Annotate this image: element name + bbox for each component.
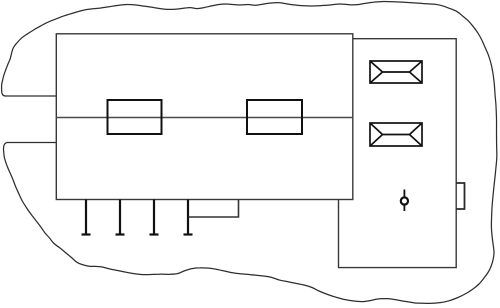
right edge box bbox=[456, 183, 464, 209]
tick T1 bbox=[82, 200, 91, 235]
window symbol W1 bbox=[370, 61, 422, 83]
right room outline bbox=[339, 39, 457, 268]
knob symbol bbox=[401, 190, 408, 212]
tick T4 bbox=[184, 200, 193, 235]
bottom notch bbox=[189, 200, 239, 217]
box B1 bbox=[108, 100, 162, 134]
window symbol W2 bbox=[370, 123, 422, 146]
tick T2 bbox=[116, 200, 125, 235]
tick T3 bbox=[150, 200, 159, 235]
box B2 bbox=[247, 100, 302, 134]
main rectangle bbox=[56, 34, 353, 200]
divider line bbox=[56, 117, 353, 119]
